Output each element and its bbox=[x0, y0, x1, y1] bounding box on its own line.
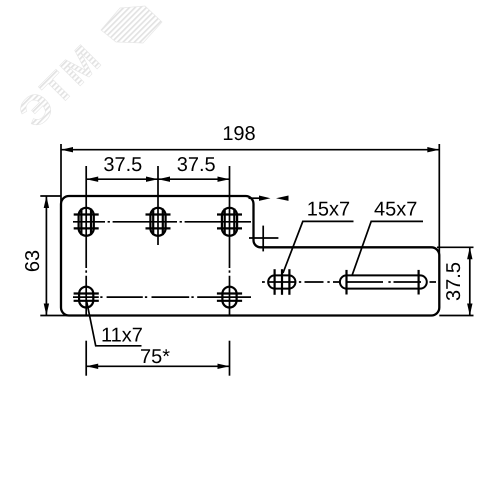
centerline column 2 bbox=[157, 166, 159, 245]
svg-text:37.5: 37.5 bbox=[443, 262, 465, 301]
svg-text:198: 198 bbox=[222, 123, 255, 145]
slot bottom row col3 11x7 bbox=[217, 287, 242, 308]
small opposing arrows near corner bbox=[249, 196, 289, 201]
dimension 37.5 left bbox=[86, 154, 158, 182]
dimension 198 bbox=[61, 123, 439, 152]
svg-text:37.5: 37.5 bbox=[103, 154, 142, 176]
svg-text:37.5: 37.5 bbox=[177, 154, 216, 176]
centerline column 3 bbox=[229, 166, 231, 316]
extension line bottom-left (63 dim) bbox=[40, 315, 69, 317]
centerline row bottom bbox=[73, 296, 251, 298]
dimension 37.5 right bbox=[158, 154, 230, 182]
slot 45x7 bbox=[340, 270, 427, 295]
svg-text:45x7: 45x7 bbox=[374, 199, 417, 221]
svg-text:ЭТМ: ЭТМ bbox=[9, 35, 110, 136]
dimension 75* bbox=[86, 341, 229, 376]
slot 15x7 bbox=[268, 269, 295, 295]
extension line 198 left bbox=[60, 144, 62, 202]
centerline row right slots bbox=[262, 281, 436, 283]
dimension 63 bbox=[22, 196, 49, 316]
leader 11x7 bbox=[86, 300, 142, 347]
watermark ETM logo block bbox=[101, 6, 162, 43]
cross mark bbox=[249, 226, 278, 252]
leader 45x7 bbox=[352, 199, 423, 275]
svg-text:15x7: 15x7 bbox=[307, 199, 350, 221]
svg-text:75*: 75* bbox=[140, 346, 170, 368]
watermark ETM text bbox=[9, 35, 110, 136]
leader 15x7 bbox=[283, 199, 354, 273]
extension line top-right (37.5 dim) bbox=[437, 246, 474, 248]
extension line top-left (63 dim) bbox=[40, 195, 61, 197]
centerline row top bbox=[73, 221, 251, 223]
dimension 37.5 vertical right bbox=[443, 247, 473, 315]
plate outline bbox=[61, 196, 439, 316]
extension line 198 right bbox=[438, 144, 440, 253]
slot top row col2 11x7 bbox=[146, 208, 171, 236]
extension line bottom-right (37.5 dim) bbox=[439, 315, 473, 317]
svg-text:11x7: 11x7 bbox=[101, 325, 143, 347]
slot bottom row col1 11x7 bbox=[74, 287, 99, 308]
slot top row col1 11x7 bbox=[74, 208, 99, 236]
centerline column 1 bbox=[85, 166, 87, 316]
svg-text:63: 63 bbox=[22, 250, 44, 272]
slot top row col3 11x7 bbox=[217, 208, 242, 236]
